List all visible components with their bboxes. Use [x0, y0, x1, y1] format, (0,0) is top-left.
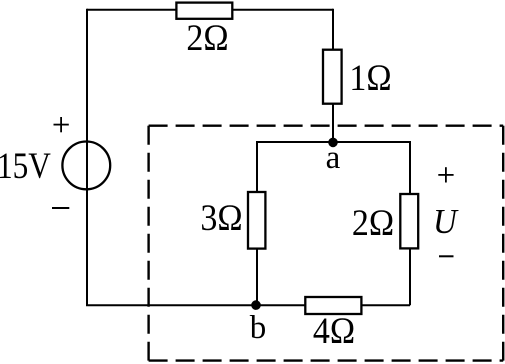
voltage source 15V (circle): [62, 142, 110, 190]
svg-text:15V: 15V: [0, 145, 51, 186]
polarity + of source: [54, 117, 69, 132]
svg-text:b: b: [250, 310, 267, 346]
wire: right vertical branch down to node a: [332, 9, 334, 142]
wire: inner loop left vertical: [256, 141, 258, 305]
wire: bottom horizontal from left branch to right inner branch: [86, 304, 410, 306]
resistor 2Ω (top): [176, 3, 232, 19]
wire: left vertical branch through source: [86, 9, 88, 306]
resistor 4Ω (bottom): [305, 297, 361, 314]
wire: inner loop top from left to right: [257, 141, 410, 143]
dashed box (two-terminal network boundary): [149, 126, 504, 361]
svg-text:4Ω: 4Ω: [313, 310, 355, 352]
node b (junction dot): [251, 300, 261, 310]
svg-text:2Ω: 2Ω: [186, 17, 228, 59]
resistor 3Ω: [248, 192, 265, 249]
resistor 1Ω: [323, 50, 342, 104]
polarity - of source: [52, 207, 69, 209]
svg-text:a: a: [326, 140, 341, 176]
svg-text:2Ω: 2Ω: [352, 202, 394, 244]
svg-text:U: U: [433, 203, 459, 241]
wire: inner loop right vertical: [409, 141, 411, 305]
svg-text:3Ω: 3Ω: [200, 197, 242, 239]
svg-text:1Ω: 1Ω: [349, 57, 391, 99]
polarity - of U: [439, 255, 454, 257]
wire: top horizontal from left branch to right branch: [87, 9, 333, 11]
polarity + of U: [438, 167, 453, 182]
node a (junction dot): [328, 138, 338, 148]
resistor 2Ω (right, with voltage U): [400, 194, 418, 248]
